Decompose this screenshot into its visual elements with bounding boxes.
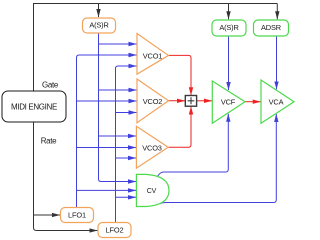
svg-text:VCO2: VCO2	[143, 97, 163, 106]
svg-text:VCF: VCF	[221, 98, 236, 107]
svg-text:Gate: Gate	[42, 81, 59, 90]
svg-text:A(S)R: A(S)R	[219, 23, 238, 32]
svg-text:LFO1: LFO1	[68, 211, 86, 220]
svg-text:VCA: VCA	[269, 98, 284, 107]
svg-text:VCO1: VCO1	[143, 52, 163, 61]
svg-text:VCO3: VCO3	[142, 143, 162, 152]
svg-text:MIDI ENGINE: MIDI ENGINE	[11, 103, 57, 112]
svg-text:ADSR: ADSR	[261, 23, 281, 32]
svg-text:Rate: Rate	[41, 137, 57, 146]
svg-text:LFO2: LFO2	[106, 226, 124, 235]
svg-text:CV: CV	[147, 188, 157, 195]
svg-text:A(S)R: A(S)R	[89, 21, 108, 30]
